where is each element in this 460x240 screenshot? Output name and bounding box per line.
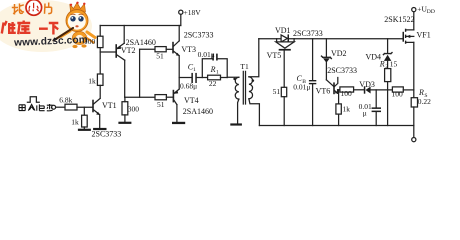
wire 100 to VD3 <box>354 89 364 91</box>
red brand text wei-ku-yi-xia <box>2 21 59 35</box>
wire source column <box>413 42 415 97</box>
svg-text:R: R <box>379 60 385 69</box>
svg-text:6.8k: 6.8k <box>59 95 72 104</box>
svg-text:VD4: VD4 <box>366 53 382 62</box>
ground 300 <box>118 122 131 124</box>
wire 300 bottom <box>124 115 126 122</box>
svg-text:0.01μ: 0.01μ <box>198 50 215 59</box>
wire VT1 emitter <box>99 115 101 128</box>
svg-text:+18V: +18V <box>184 8 202 17</box>
wire 100 to source column <box>403 89 414 91</box>
resistor 51 (VT4 base) <box>155 95 166 100</box>
wire VD4 column <box>387 39 389 53</box>
svg-text:DD: DD <box>427 9 435 15</box>
svg-text:μ: μ <box>363 108 367 117</box>
badge char pian <box>45 3 52 14</box>
svg-text:1: 1 <box>193 67 196 73</box>
svg-text:VT3: VT3 <box>181 45 196 54</box>
svg-text:51: 51 <box>157 100 165 109</box>
svg-text:0.01μ: 0.01μ <box>293 82 310 91</box>
svg-text:2SC3733: 2SC3733 <box>92 129 122 138</box>
resistor 300 <box>122 102 128 115</box>
wire VT6 emitter row <box>338 89 340 91</box>
diode VD2 zener <box>322 56 332 58</box>
svg-text:VT1: VT1 <box>102 101 117 110</box>
wire 51sec to rail <box>283 97 285 126</box>
resistor RS 0.22 <box>411 98 417 107</box>
wire collector node row to 51b <box>125 96 155 98</box>
node secondary dot <box>252 79 255 82</box>
input terminal <box>52 105 56 109</box>
svg-text:2: 2 <box>385 64 388 70</box>
transformer T1 primary winding <box>235 77 239 99</box>
transistor VT1 <box>92 101 94 112</box>
capacitor 0.01u (gate) <box>372 107 381 109</box>
svg-text:0.22: 0.22 <box>418 97 431 106</box>
transistor VT5 <box>276 42 294 48</box>
node primary dot <box>233 78 236 81</box>
output terminal <box>412 138 416 142</box>
wire C1 to RC loop <box>197 77 208 79</box>
wire 0.01u branch <box>375 90 377 108</box>
wire input to 6.8k <box>56 106 65 108</box>
svg-text:VF1: VF1 <box>417 30 431 39</box>
wire top rail <box>100 25 181 27</box>
svg-text:15: 15 <box>390 60 398 69</box>
wire 100 to VT2 base node <box>99 48 101 74</box>
transistor VT6 <box>326 80 333 87</box>
diode VD3 <box>364 86 366 93</box>
resistor 1k (left column) <box>97 74 103 85</box>
+UDD terminal <box>412 8 416 12</box>
wire mid junction column <box>178 56 180 89</box>
wire CB column bottom <box>312 84 314 125</box>
wire 1k to rail <box>338 114 340 125</box>
svg-text:1k: 1k <box>71 117 79 126</box>
svg-text:1k: 1k <box>343 105 351 114</box>
svg-text:22: 22 <box>209 79 217 88</box>
svg-text:2SK1522: 2SK1522 <box>384 15 414 24</box>
badge char zhao <box>12 4 24 15</box>
resistor 51 (secondary) <box>281 87 286 96</box>
wire to 51 top <box>140 48 155 50</box>
wire RS to output <box>413 107 415 137</box>
wire VT5 emitter <box>283 51 285 88</box>
capacitor 0.01u (snubber) <box>212 54 214 61</box>
resistor 100 (VT6) <box>340 87 354 92</box>
svg-text:1: 1 <box>216 70 219 76</box>
ground VT1 <box>93 128 106 130</box>
transformer T1 core <box>243 71 245 104</box>
wire 6.8k to VT1 base <box>77 106 93 108</box>
wire R1 to T1 <box>221 76 239 78</box>
wire 1k VT6 branch <box>338 90 340 104</box>
svg-text:VT6: VT6 <box>316 86 331 95</box>
wire RC loop left/top <box>202 59 212 78</box>
wire CB column top <box>312 39 314 80</box>
svg-text:2SC3733: 2SC3733 <box>184 31 214 40</box>
wire left column top <box>99 26 101 37</box>
resistor 100 (left column) <box>97 36 103 47</box>
svg-text:VT5: VT5 <box>267 51 282 60</box>
wire secondary bottom <box>249 99 260 126</box>
resistor 51 (VT3 base) <box>155 47 166 52</box>
wire secondary top <box>249 39 259 77</box>
resistor 1k (input) <box>82 115 88 127</box>
svg-text:VD1: VD1 <box>275 26 291 35</box>
wire drain to +UDD <box>413 12 415 30</box>
capacitor CB <box>309 80 316 81</box>
mascot <box>53 2 95 49</box>
svg-text:51: 51 <box>156 52 164 61</box>
capacitor C1 <box>191 73 193 83</box>
ground T1 primary <box>230 123 242 125</box>
svg-text:VD2: VD2 <box>331 49 347 58</box>
wire VD2 column <box>325 39 327 57</box>
transformer T1 secondary winding <box>249 77 253 99</box>
wire VD2 to VT6 <box>325 63 327 80</box>
wire 51 to VT3 base <box>166 48 173 50</box>
svg-text:100: 100 <box>84 37 96 46</box>
wire mid column branch <box>139 49 141 97</box>
wire VT2 emitter to rail <box>123 26 125 44</box>
svg-text:300: 300 <box>128 104 140 113</box>
svg-text:2SA1460: 2SA1460 <box>183 107 213 116</box>
svg-text:VT4: VT4 <box>184 96 199 105</box>
wire +18V stem <box>180 14 182 25</box>
wire RC loop top/right <box>218 59 228 78</box>
wire VT2 collector column <box>124 60 126 97</box>
badge circle xin <box>26 0 42 15</box>
wire 1k-B to ground <box>83 127 85 129</box>
transistor VT4 <box>172 91 174 102</box>
wire VT4 collector <box>176 105 178 122</box>
label shuru maichong (input pulse) <box>19 104 53 111</box>
diode VD4 <box>383 53 392 55</box>
wire VD3 to node <box>371 89 393 91</box>
transistor VT2 <box>115 45 117 57</box>
+18V terminal <box>179 10 183 14</box>
wire VD4 to R2 <box>387 61 389 69</box>
svg-text:R: R <box>210 65 216 74</box>
svg-text:100: 100 <box>392 89 404 98</box>
wire 0.01u to rail <box>375 112 377 125</box>
wire C1 row <box>179 77 191 79</box>
svg-text:2SC3733: 2SC3733 <box>327 66 357 75</box>
wire 1k to VT1 collector <box>99 85 101 98</box>
svg-text:VD3: VD3 <box>359 80 375 89</box>
svg-text:1k: 1k <box>88 77 96 86</box>
ground input 1k <box>78 129 91 131</box>
resistor R2 15 <box>385 69 391 82</box>
wire R2 to node and rail <box>387 82 389 126</box>
input pulse symbol <box>27 97 39 102</box>
wire VT2 base row <box>100 51 116 53</box>
svg-text:51: 51 <box>273 87 281 96</box>
wire bottom rail <box>259 125 413 127</box>
resistor 1k (VT6) <box>336 104 341 114</box>
diode VD1 <box>281 35 287 42</box>
transistor VT3 <box>172 43 174 53</box>
svg-text:T1: T1 <box>240 62 249 71</box>
resistor R1 22 <box>208 75 221 80</box>
wire 300 top <box>124 97 126 102</box>
svg-text:VT2: VT2 <box>121 46 136 55</box>
wire 1k-B branch <box>83 107 85 115</box>
ground VT4 <box>172 122 185 124</box>
svg-text:R: R <box>418 88 424 97</box>
svg-text:100: 100 <box>341 89 353 98</box>
wire VT3 collector to rail <box>178 26 180 41</box>
wire 51b to VT4 base <box>166 96 173 98</box>
wire VD1 bypass stubs <box>277 39 295 42</box>
resistor 100 (gate) <box>392 87 403 92</box>
WATERMARK <box>0 0 95 52</box>
wire primary bottom <box>238 99 239 123</box>
resistor 6.8k <box>65 104 77 110</box>
MOSFET VF1 <box>403 32 405 42</box>
svg-text:2SC3733: 2SC3733 <box>293 29 323 38</box>
svg-text:0.68μ: 0.68μ <box>180 81 197 90</box>
wire gate rail <box>259 38 403 40</box>
